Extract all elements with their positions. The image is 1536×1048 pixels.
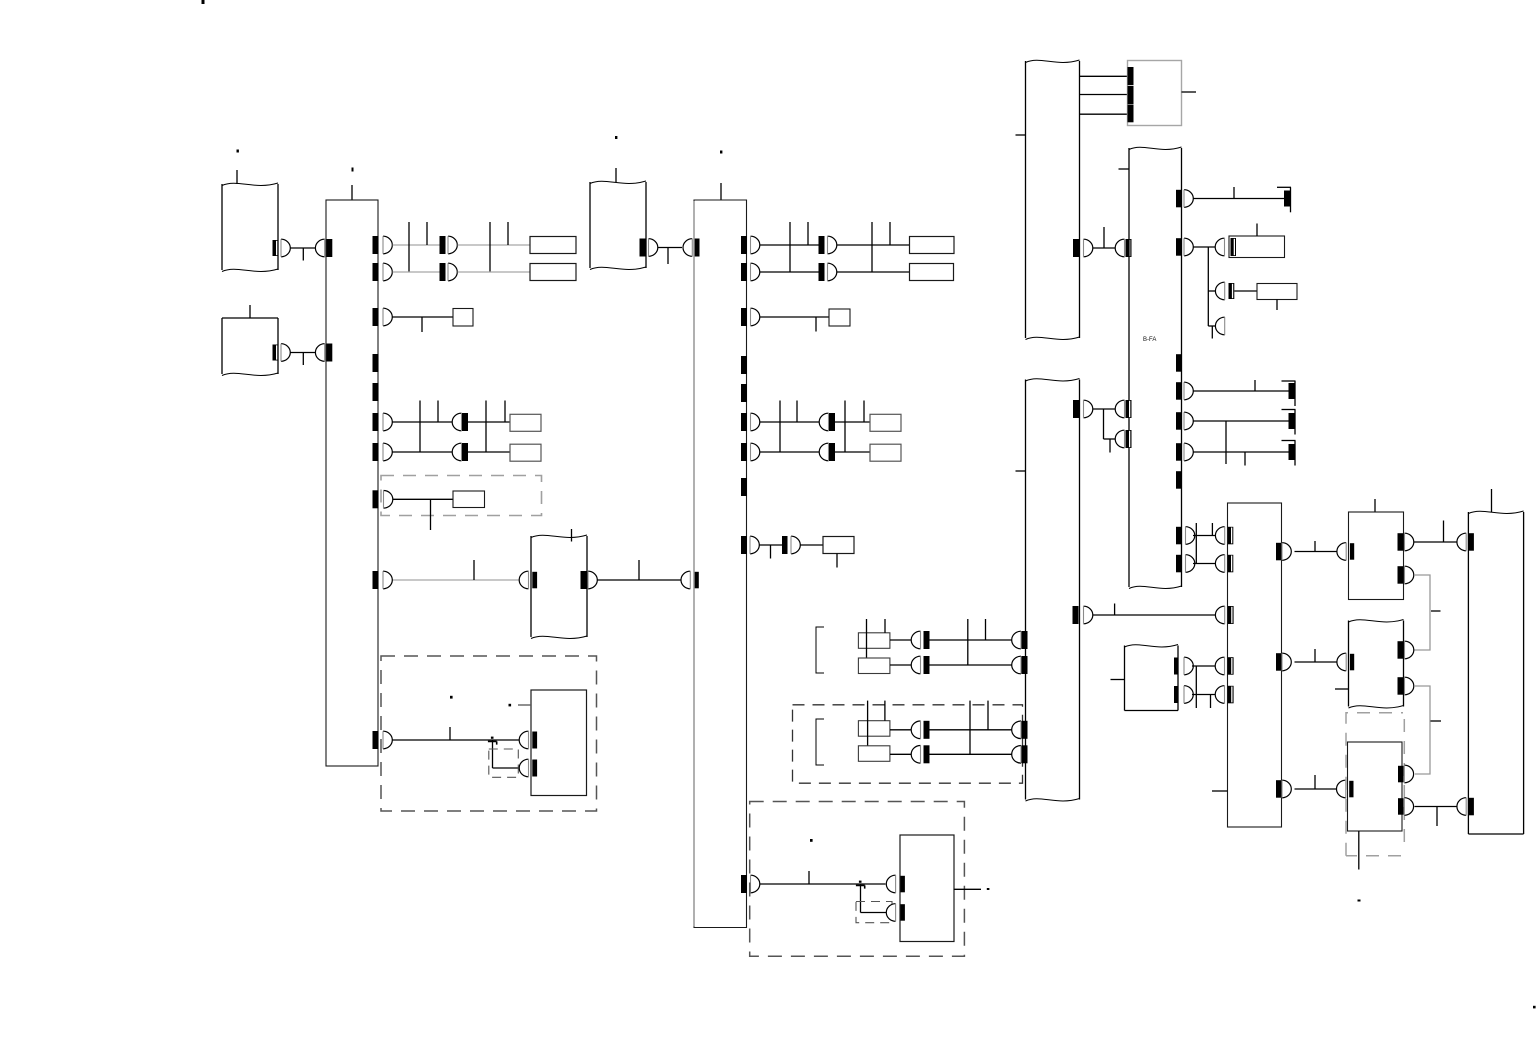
panel box P7	[1348, 742, 1403, 831]
dashed enclosure g2	[793, 705, 1023, 783]
module K2 box	[900, 835, 954, 942]
wire stub	[1244, 452, 1246, 466]
wire TB1 to K1	[393, 739, 520, 741]
connector pin W6-in b	[1115, 430, 1124, 448]
terminal strip TB4 (wavy top)	[1467, 512, 1469, 834]
connector pin	[911, 631, 920, 649]
wire tap	[967, 619, 969, 665]
connector pin K1-1	[519, 731, 528, 749]
J1 pin bar 1	[1128, 67, 1134, 85]
wire tap	[426, 222, 428, 245]
connector pin TB3 r3	[1282, 780, 1291, 798]
inline bar	[819, 236, 825, 254]
connector pin TB2 r7	[751, 875, 760, 893]
wire tap	[808, 871, 810, 884]
gray link P5-P6	[1414, 575, 1430, 650]
connector pin row A	[448, 236, 457, 254]
connector pin TB1 r3	[383, 308, 392, 326]
connector pin	[791, 536, 800, 554]
connector pin TB3 r1	[1282, 543, 1291, 561]
wire r5	[1194, 451, 1290, 453]
wire row B seg2	[837, 271, 910, 273]
cable W6 (tall wavy box)	[1128, 148, 1130, 587]
svg-text:B-FA: B-FA	[1143, 337, 1156, 343]
inline bar	[924, 656, 930, 674]
wire terminator	[1282, 409, 1296, 411]
stray dot bottom right	[1533, 1006, 1536, 1009]
dashed enclosure P7 (gray)	[1346, 713, 1404, 856]
W6 right pin bars	[1176, 190, 1182, 208]
TB3 pin bar c (striped)	[1228, 606, 1234, 624]
cable W7 right pin bar	[1073, 606, 1079, 624]
wire tap	[408, 222, 410, 272]
cable W7 pin bar	[1022, 721, 1028, 739]
connector pin W6 r7	[1186, 555, 1195, 573]
wire tap	[1443, 521, 1445, 543]
device box row E	[453, 491, 485, 508]
connector pin W6 r6	[1186, 527, 1195, 545]
module K2 right stub	[954, 888, 981, 890]
wire r2	[1194, 246, 1217, 248]
cable W3 top lead	[571, 529, 573, 542]
wire g1r2 seg1	[890, 664, 912, 666]
inline bar row B	[440, 263, 446, 281]
wire stub	[667, 248, 669, 265]
connector pin W6 r2	[1184, 238, 1193, 256]
connector pin P5 left	[1337, 543, 1346, 561]
wire row 3	[393, 316, 454, 318]
wire g2r2 seg1	[890, 753, 912, 755]
wire tap	[1314, 649, 1316, 662]
panel box P5	[1349, 512, 1404, 600]
terminal strip TB1 top lead	[351, 185, 353, 200]
connector pin W1-a	[281, 239, 290, 257]
stray dot	[450, 696, 453, 699]
dashed group box E	[381, 476, 542, 516]
wire terminator	[1282, 440, 1296, 442]
wire tap	[866, 619, 868, 658]
wire tap	[473, 560, 475, 580]
wire W2 to TB1	[290, 352, 316, 354]
connector pin W8-b	[1184, 686, 1193, 704]
P6 left stub	[1335, 688, 1349, 690]
wire row C seg2	[468, 421, 510, 423]
wire row A seg2 (gray)	[458, 244, 531, 246]
wire W8 to TB3 b	[1192, 694, 1216, 696]
P6 right pin bars	[1398, 641, 1404, 659]
wire row D seg1	[393, 451, 453, 453]
wire tap	[807, 222, 809, 245]
connector pin TB3-d	[1215, 657, 1224, 675]
connector pin W6 r5	[1184, 443, 1193, 461]
cable W6 left stub	[1119, 168, 1130, 170]
terminal bar TB2 left pin 2	[694, 572, 699, 589]
cable W6 pin bar (striped)	[1126, 430, 1132, 448]
wire g1r1 seg1	[890, 639, 912, 641]
connector pin P6 r2	[1405, 677, 1414, 695]
device box row A	[530, 237, 576, 254]
wire W5 to J1 pin1	[1080, 75, 1128, 77]
connector pin TB1 r5	[383, 443, 392, 461]
connector pin TB2 left	[681, 571, 690, 589]
device box g1r2	[858, 658, 890, 674]
R3 bottom stub	[1276, 300, 1278, 311]
wire terminator	[1282, 380, 1296, 382]
branch wire down	[860, 884, 862, 913]
wire tap	[863, 401, 865, 423]
terminal strip TB2 top lead	[720, 183, 722, 200]
terminal bar TB2 left pin 1	[694, 239, 700, 257]
module K2 pin bar 2	[900, 904, 905, 921]
device box row E	[823, 537, 854, 554]
P6 pin bar	[1350, 654, 1354, 671]
module K2 pin bar 1	[900, 876, 905, 893]
device box g1r1	[858, 633, 890, 649]
P7 right pin bars	[1398, 766, 1404, 783]
wire g2r2 seg2	[930, 753, 1013, 755]
connector pin TB2 r1	[751, 236, 760, 254]
wire tap	[969, 701, 971, 755]
device box R3	[1257, 284, 1297, 300]
wire stub	[1210, 695, 1212, 709]
device box	[870, 444, 901, 461]
connector pin W7-b	[1084, 606, 1093, 624]
wire stub	[770, 545, 772, 559]
wire g2r1 seg1	[890, 729, 912, 731]
cable W5 left stub	[1016, 134, 1026, 136]
wire tap	[1103, 227, 1105, 248]
wire tap	[1254, 380, 1256, 391]
wire row B seg1 (gray)	[393, 271, 440, 273]
connector pin P7 r1	[1404, 765, 1413, 783]
wire tap	[485, 401, 487, 453]
inline bar row A	[440, 236, 446, 254]
dashed enclosure K1	[381, 656, 597, 811]
wire tap	[1114, 604, 1116, 616]
device box row D	[510, 444, 541, 461]
connector pin	[828, 236, 837, 254]
wire W3 to TB2	[598, 579, 682, 581]
wire stub	[1436, 807, 1438, 827]
device box row B	[530, 264, 576, 281]
device box	[910, 264, 954, 281]
connector pin P7 left	[1337, 780, 1346, 798]
connector pin TB1 r6	[384, 491, 393, 509]
connector pin K2-2	[886, 904, 895, 922]
connector pin W2-a	[281, 344, 290, 362]
terminal strip TB4 top lead	[1491, 489, 1493, 512]
connector pin W4-a	[649, 239, 658, 257]
device box g2r2	[858, 746, 890, 762]
connector pin	[819, 443, 828, 461]
terminal strip TB1	[326, 200, 378, 766]
page tick mark	[202, 0, 205, 4]
module K1 pin bar 2	[532, 760, 537, 777]
connector pin W6 left	[1115, 239, 1124, 257]
cable W8 left stub	[1111, 679, 1125, 681]
wire row E	[393, 498, 453, 500]
device box R2	[1229, 236, 1285, 258]
small dashed box K2 pin2	[856, 902, 892, 923]
cable W4 pin bar	[640, 239, 646, 257]
wire tap	[1211, 523, 1213, 536]
cable W5 right pin bar	[1073, 239, 1079, 257]
wire tap	[779, 401, 781, 453]
cable W1 pin bar (striped)	[273, 240, 279, 256]
wire row C seg2	[835, 421, 870, 423]
wire stub	[1109, 439, 1111, 453]
wire TB2 to K2	[760, 883, 886, 885]
wire row A seg1	[760, 244, 819, 246]
connector pin	[911, 721, 920, 739]
wire stub	[430, 499, 432, 530]
cable W2 drop wire	[249, 305, 251, 318]
P7 pin bar	[1349, 781, 1353, 798]
connector pin TB3-e	[1215, 686, 1224, 704]
wire tap	[871, 222, 873, 272]
TB4 pin bar b	[1468, 798, 1474, 816]
wire tap	[504, 401, 506, 423]
wire r1	[1194, 198, 1285, 200]
cable W7 right pin bar	[1073, 400, 1079, 418]
panel P5 top lead	[1374, 499, 1376, 513]
inline bar	[829, 413, 835, 431]
wire row E seg1	[760, 544, 783, 546]
cable W4 drop wire	[615, 168, 617, 182]
wire stub	[1211, 326, 1213, 339]
TB3 pin bar b (striped)	[1228, 555, 1234, 573]
cable W6 pin bar (striped)	[1126, 400, 1132, 418]
wire TB3 to P6	[1295, 661, 1339, 663]
branch stub down	[1225, 421, 1227, 464]
wire g1r2 seg2	[930, 664, 1013, 666]
wire tap	[419, 401, 421, 453]
connector pin W3 left	[519, 571, 528, 589]
wire stub	[421, 317, 423, 332]
wire TB3 to P5	[1295, 551, 1339, 553]
cable W7 (tall wavy box)	[1025, 380, 1027, 800]
connector pin P6 left	[1337, 653, 1346, 671]
connector pin R3	[1215, 282, 1224, 300]
cable W7 left stub	[1016, 470, 1026, 472]
inline bar	[819, 263, 825, 281]
branch wire b	[1104, 438, 1116, 440]
P5 pin bar	[1350, 543, 1354, 560]
device square	[829, 309, 850, 326]
P5 right pin bars	[1398, 533, 1404, 551]
wire row D seg2	[468, 451, 510, 453]
wire r3	[1194, 390, 1290, 392]
connector pin K1-2	[519, 759, 528, 777]
wire tap	[789, 222, 791, 272]
stray dot	[810, 839, 813, 842]
TB1 right pin bars	[373, 236, 379, 254]
wire TB1 to W3 (gray)	[393, 579, 520, 581]
wire W1 to TB1	[290, 247, 316, 249]
TB3 left stub	[1212, 790, 1228, 792]
wire tap	[1314, 541, 1316, 552]
connector pin P6 r1	[1405, 641, 1414, 659]
wire to TB3 b	[1193, 563, 1216, 565]
wire tap	[449, 727, 451, 740]
wire stub	[302, 353, 304, 366]
wire W5 to W6	[1093, 247, 1117, 249]
connector pin	[911, 746, 920, 764]
connector pin TB4-a	[1457, 533, 1466, 551]
cable W3 right pin bar	[581, 571, 587, 589]
connector pin TB2 r5	[751, 443, 760, 461]
cable W7 pin bar	[1022, 745, 1028, 763]
wire g2r1 seg2	[930, 729, 1013, 731]
wire W7 to TB3	[1093, 614, 1217, 616]
device square row 3	[453, 309, 473, 327]
wire row A seg1 (gray)	[393, 244, 440, 246]
cable W8 (wavy-top box)	[1124, 646, 1126, 711]
inline bar	[924, 745, 930, 763]
device box	[870, 414, 901, 431]
inline bar	[782, 536, 788, 554]
cable W3 (wavy box)	[530, 536, 532, 637]
connector pin W7-in1	[1012, 631, 1021, 649]
wire W5 to J1 pin3	[1080, 113, 1128, 115]
wire stub below box	[836, 554, 838, 568]
inline bar row D	[462, 443, 468, 461]
wire tap	[987, 701, 989, 730]
wire P5 to TB4	[1414, 541, 1457, 543]
connector pin	[828, 263, 837, 281]
connector pin W6-in a	[1115, 400, 1124, 418]
connector pin TB2 r3	[751, 308, 760, 326]
connector box J1 (gray)	[1128, 61, 1182, 126]
wire W4 to TB2	[658, 247, 682, 249]
tap mark	[1431, 720, 1442, 722]
branch wire down	[1207, 247, 1209, 326]
connector pin TB2 r2	[751, 263, 760, 281]
cable W3 pin bar	[532, 572, 537, 589]
R2 top stub	[1256, 224, 1258, 237]
wire row D seg1	[760, 451, 819, 453]
group bracket	[816, 627, 824, 673]
connector pin P7 r2	[1404, 798, 1413, 816]
connector pin	[911, 656, 920, 674]
cable W4 (wavy box)	[589, 182, 591, 268]
wire row B seg1	[760, 271, 819, 273]
wire tap	[489, 222, 491, 272]
branch wire to K1 pin 2	[493, 767, 520, 769]
wire tap	[884, 701, 886, 721]
connector pin TB1-b	[315, 344, 324, 362]
branch wire down	[492, 740, 494, 768]
device box row C	[510, 414, 541, 431]
connector pin TB2 r4	[751, 413, 760, 431]
connector pin row B	[448, 263, 457, 281]
TB2 right pin bars	[741, 236, 747, 254]
connector pin TB1 r7	[383, 571, 392, 589]
gray link P6-P7	[1414, 686, 1430, 774]
wire W7 to W6 a	[1093, 408, 1117, 410]
TB3 pin bar d (striped)	[1228, 657, 1234, 675]
wire tap	[437, 401, 439, 423]
wire TB3 to P7	[1295, 788, 1338, 790]
wire r4	[1194, 420, 1290, 422]
wire tap	[507, 222, 509, 245]
wire tap	[796, 401, 798, 423]
wire tap	[889, 222, 891, 245]
R2 inner bar (striped)	[1231, 238, 1237, 256]
inline bar	[924, 631, 930, 649]
wire W8 to TB3 a	[1192, 665, 1216, 667]
connector pin TB4-b	[1457, 798, 1466, 816]
wire row C seg1	[760, 421, 819, 423]
cable W1 (wavy box)	[221, 184, 223, 270]
connector pin c	[1215, 317, 1224, 335]
panel box P6 (wavy)	[1348, 621, 1350, 707]
wire tap	[1314, 775, 1316, 789]
junction arrow	[488, 741, 497, 744]
connector pin W7-in4	[1012, 746, 1021, 764]
module K1 box	[531, 690, 587, 796]
connector pin TB3-c	[1215, 606, 1224, 624]
connector pin TB3 r2	[1282, 653, 1291, 671]
wire terminator	[1277, 186, 1291, 188]
cable W7 pin bar	[1022, 631, 1028, 649]
connector pin W7-in3	[1012, 721, 1021, 739]
wire tap	[638, 560, 640, 580]
wire tap	[1233, 187, 1235, 199]
R3 pin bar (striped)	[1229, 283, 1235, 299]
inline bar row C	[462, 413, 468, 431]
connector pin row D	[452, 443, 461, 461]
wire row C seg1	[393, 421, 453, 423]
connector pin W8-a	[1184, 657, 1193, 675]
TB4 pin bar a	[1468, 533, 1474, 551]
TB3 pin bar a (striped)	[1228, 527, 1234, 545]
group bracket	[816, 719, 824, 765]
connector pin row C	[452, 413, 461, 431]
terminal strip TB2 (left edge gray)	[694, 200, 747, 928]
connector pin TB1-a	[315, 239, 324, 257]
TB3 right pin bars	[1276, 543, 1282, 561]
cable W1 drop wire	[236, 170, 238, 184]
terminal strip TB3	[1228, 503, 1282, 827]
connector pin TB1 r2	[383, 263, 392, 281]
wire P7 to TB4	[1415, 806, 1457, 808]
connector pin W6 r1	[1184, 190, 1193, 208]
cable W5 (tall wavy box)	[1025, 61, 1027, 338]
wire row D seg2	[835, 451, 870, 453]
cable W6 pin bar (striped)	[1126, 239, 1132, 257]
connector pin W3 right	[588, 571, 597, 589]
inline bar	[924, 721, 930, 739]
link wire	[1195, 523, 1197, 564]
connector pin W7-a	[1084, 400, 1093, 418]
cable W7 pin bar	[1022, 656, 1028, 674]
connector pin TB3-b	[1215, 555, 1224, 573]
stray mark	[1358, 900, 1361, 902]
connector pin TB3-a	[1215, 527, 1224, 545]
wire tap	[844, 401, 846, 453]
connector pin TB1 r8	[383, 731, 392, 749]
connector pin P5 r1	[1405, 533, 1414, 551]
branch wire down	[1103, 409, 1105, 439]
wire W5 to J1 pin2	[1080, 94, 1128, 96]
tap mark	[1431, 610, 1441, 612]
connector pin	[819, 413, 828, 431]
connector pin P5 r2	[1405, 566, 1414, 584]
J1 pin bar 2	[1128, 86, 1134, 105]
connector pin W7-in2	[1012, 656, 1021, 674]
connector pin W6 r4	[1184, 412, 1193, 430]
